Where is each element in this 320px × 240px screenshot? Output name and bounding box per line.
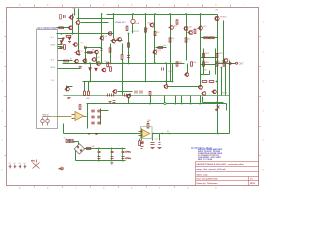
svg-text:C31: C31 <box>155 139 158 141</box>
wire v r15 <box>84 82 86 92</box>
capacitor C12 <box>98 122 100 124</box>
mounting hole H3 <box>19 165 22 169</box>
net label +V right <box>215 10 219 12</box>
wire protection bottom right <box>153 133 230 135</box>
current source circle <box>131 19 135 23</box>
wire output stage bottom <box>167 86 201 88</box>
transistor Q15 <box>169 26 174 30</box>
wire v sense6 <box>200 96 202 104</box>
resistor R24 <box>194 29 196 33</box>
transistor Q31 <box>126 94 131 98</box>
svg-text:GND: GND <box>59 169 64 171</box>
svg-text:2k2: 2k2 <box>188 39 191 41</box>
wire v ladder b <box>215 49 217 75</box>
wire R ladder row3 <box>201 64 217 66</box>
resistor R15 <box>84 91 86 95</box>
svg-text:Q15: Q15 <box>174 25 177 27</box>
wire V+ top rail <box>107 14 218 16</box>
ground G9 <box>158 147 162 149</box>
wire v uin <box>141 129 143 134</box>
transistor Q25 <box>74 59 79 63</box>
resistor R10 <box>64 45 66 50</box>
quartz / spare part symbol <box>31 160 40 169</box>
connector pins in X1 <box>41 117 58 126</box>
capacitor C17 (electrolytic) <box>98 157 101 159</box>
svg-text:TIP3055: TIP3055 <box>220 16 227 18</box>
transistor Q9 <box>117 38 122 42</box>
ground G10 <box>215 109 218 111</box>
label pin names <box>42 115 49 117</box>
resistor R18 <box>126 26 128 30</box>
resistor R23 <box>60 15 62 19</box>
protection section box <box>64 95 230 97</box>
wire v u2a <box>152 134 154 141</box>
svg-text:X2: X2 <box>64 138 66 140</box>
wire v sense3 <box>175 96 177 104</box>
capacitor C13 <box>141 142 144 144</box>
transistor Q13 <box>153 50 157 55</box>
resistor R3 <box>88 52 93 54</box>
diode D3 <box>95 68 97 71</box>
capacitor C10 <box>98 116 100 118</box>
wire v emitter <box>223 21 225 64</box>
wire sense bus <box>87 103 227 105</box>
title block header text (blue) <box>198 148 223 161</box>
svg-text:OUTPUT: OUTPUT <box>131 31 140 33</box>
svg-text:Q10: Q10 <box>96 57 99 59</box>
svg-text:SP1: SP1 <box>31 161 35 163</box>
svg-text:K1: K1 <box>167 131 169 133</box>
wire v ladder a <box>203 49 205 75</box>
transistor Q3 <box>68 26 73 30</box>
wire VAS rail <box>63 63 185 65</box>
svg-text:Q16: Q16 <box>188 26 191 28</box>
wire v q31 <box>128 98 130 104</box>
ground G1 <box>60 47 64 49</box>
capacitor C19 (electrolytic) <box>111 157 114 159</box>
wire v zobel b <box>225 64 227 96</box>
transistor Q30 <box>112 89 117 93</box>
wire v grid right <box>100 109 102 125</box>
svg-text:D1: D1 <box>63 38 65 40</box>
svg-text:0R22: 0R22 <box>218 62 222 64</box>
wire q30 link <box>118 91 133 93</box>
svg-text:R50: R50 <box>148 120 151 122</box>
wire v zobel c <box>229 61 231 111</box>
transistor Q10 <box>92 58 96 62</box>
resistor R34 <box>202 81 207 83</box>
resistor R14 <box>147 123 149 128</box>
resistor R7 <box>216 53 218 57</box>
capacitor C22 <box>63 15 65 18</box>
ground G7 <box>141 146 144 148</box>
net label OUT mid <box>131 31 140 33</box>
wire v out left <box>200 15 202 87</box>
wire v miller <box>128 34 130 64</box>
svg-text:1k5: 1k5 <box>172 38 175 40</box>
wire lower bias rail <box>83 81 173 83</box>
capacitor C4 <box>111 94 113 97</box>
ground G6 <box>110 162 113 164</box>
wire stub v2 <box>78 9 80 21</box>
capacitor C2 <box>101 48 103 50</box>
wire q24 top <box>67 86 73 88</box>
labels box1 pins <box>51 37 55 39</box>
ground G3 <box>68 97 71 99</box>
frame ticks bottom <box>35 186 175 188</box>
resistor R29 <box>154 31 156 35</box>
transistor Q14 <box>164 84 168 89</box>
frame ticks left <box>5 37 7 156</box>
svg-text:0R22: 0R22 <box>205 53 209 55</box>
wire v prot left <box>63 124 65 134</box>
transistor Q18 <box>198 85 202 89</box>
transistor Q7 <box>108 32 112 36</box>
svg-text:Q12: Q12 <box>148 23 151 25</box>
svg-text:0R22: 0R22 <box>205 62 209 64</box>
svg-text:Q1: Q1 <box>74 14 76 16</box>
resistor R36 <box>86 148 91 150</box>
transistor Q1 <box>69 15 74 19</box>
wire v out right <box>217 15 219 134</box>
wire upper left rail <box>77 18 114 20</box>
transistor Q5 <box>75 51 80 55</box>
net label +V left <box>72 8 76 10</box>
wire mid short <box>89 47 102 49</box>
wire v bias2 <box>186 15 188 61</box>
relay contact cross <box>217 106 220 109</box>
svg-text:BD139: BD139 <box>222 93 228 95</box>
transistor Q27 <box>82 59 87 63</box>
wire v current source <box>132 15 134 20</box>
frame ticks top <box>35 5 231 8</box>
transistor Q20 <box>215 16 220 20</box>
svg-text:Q13: Q13 <box>157 50 160 52</box>
frame column letters <box>19 4 21 7</box>
resistor R1 <box>59 27 64 29</box>
wire U1 input (yellow net) <box>58 116 72 118</box>
capacitor C7 <box>92 110 94 112</box>
resistor R22 <box>66 35 71 37</box>
transistor Q2 <box>76 21 80 25</box>
wire mid-left bus <box>57 33 114 35</box>
ground G12 <box>109 101 112 103</box>
resistor R21 <box>110 67 112 71</box>
title block <box>196 162 259 186</box>
op-amp U1 <box>72 112 87 121</box>
diode D5 <box>68 37 70 40</box>
resistor R30 <box>169 38 171 42</box>
resistor R31 <box>185 38 187 42</box>
transistor Q8 <box>111 39 116 44</box>
wire v grid left <box>87 104 89 129</box>
svg-text:1k: 1k <box>147 29 149 31</box>
input connector box X1 <box>37 30 58 129</box>
transistor Q29 <box>188 31 193 35</box>
capacitor C28 <box>139 91 141 94</box>
ground G4 <box>88 133 91 135</box>
node output terminal <box>236 62 238 64</box>
capacitor C29 <box>113 100 116 102</box>
capacitor C1 <box>62 38 64 41</box>
wire v fb2 <box>172 64 174 82</box>
capacitor C5 <box>124 94 126 97</box>
transistor Q6 <box>100 36 104 41</box>
wire v cascode <box>113 15 115 39</box>
wire v sense2 <box>164 96 166 103</box>
value label small texts <box>74 14 227 73</box>
wire v r12 <box>122 44 124 55</box>
wire v left drop <box>101 15 103 64</box>
resistor R9 <box>216 62 218 66</box>
ground G11 <box>68 41 71 43</box>
transistor Q16 <box>184 27 188 31</box>
wire v r16 <box>88 82 90 92</box>
mounting hole H2 <box>14 165 17 169</box>
LED D4 output indicator <box>230 62 233 65</box>
frame ticks right <box>259 37 261 156</box>
resistor R2 <box>64 60 69 62</box>
wire box1 stub d <box>58 60 73 62</box>
capacitor C23 <box>84 46 86 49</box>
capacitor C9 <box>92 116 94 118</box>
capacitor C20 (electrolytic) <box>122 148 125 162</box>
wire v u2b <box>159 134 161 141</box>
capacitor C3 <box>107 94 109 97</box>
resistor R25 <box>176 62 178 66</box>
wire v spk <box>226 104 228 111</box>
wire bias row <box>85 52 94 54</box>
wire box1 stub f <box>58 44 63 46</box>
title block rows text <box>197 163 257 185</box>
svg-text:Q8: Q8 <box>116 38 118 40</box>
resistor R19 <box>176 20 178 24</box>
transistor Q19 <box>198 26 203 31</box>
ground G8 <box>151 147 155 149</box>
capacitor C26 <box>127 55 130 57</box>
transistor Q24 <box>65 87 70 91</box>
value labels right <box>147 29 149 31</box>
svg-text:R40: R40 <box>92 146 95 148</box>
spare gate symbol <box>59 167 64 170</box>
wire v box edge <box>229 111 231 134</box>
wire psu v left <box>75 151 77 161</box>
transistor Q28 <box>101 68 106 72</box>
svg-text:4700u: 4700u <box>125 151 131 153</box>
capacitor C27 <box>134 91 136 94</box>
transistor Q21 <box>223 59 228 63</box>
wire v q27 <box>85 48 87 64</box>
resistor R8 <box>203 62 205 66</box>
wire relay box top <box>202 97 204 103</box>
capacitor C11 <box>92 122 94 124</box>
transistor Q26 <box>94 50 99 54</box>
wire box1 stub c <box>58 48 63 50</box>
wire v r20 <box>110 44 112 64</box>
svg-text:470: 470 <box>157 32 160 34</box>
wire upper mirror <box>81 22 109 24</box>
resistor R17 <box>149 91 151 95</box>
resistor R11 <box>107 62 109 67</box>
wire v mid rail <box>145 15 147 82</box>
transistor Q23 <box>212 90 217 94</box>
wire v sense1 <box>150 96 152 104</box>
svg-text:REV 1.2 / 2006: REV 1.2 / 2006 <box>198 159 213 161</box>
svg-text:T5: T5 <box>81 51 83 53</box>
wire v q17 <box>187 64 189 73</box>
op-amp U2 <box>139 127 153 139</box>
ground G2 <box>78 54 81 56</box>
wire v sense drop <box>122 64 124 96</box>
wire v fb3 <box>166 64 168 85</box>
transistor Q11 <box>96 62 101 66</box>
svg-text:OUT: OUT <box>239 62 245 65</box>
screw terminal X2 <box>66 139 74 142</box>
node sense tap (open pin) <box>164 103 166 105</box>
svg-text:Q18: Q18 <box>203 69 206 71</box>
wire v sense4 <box>181 96 183 104</box>
wire protection bottom left <box>64 133 142 135</box>
resistor R35 <box>209 81 214 83</box>
wire v q26 <box>96 54 98 64</box>
wire R ladder row1 <box>201 37 218 39</box>
resistor R32 <box>158 47 163 49</box>
svg-text:Q14: Q14 <box>168 71 171 73</box>
svg-text:R12: R12 <box>109 63 112 65</box>
fuse F1 <box>139 139 144 146</box>
wire q8 jog <box>114 40 123 42</box>
wire X2 to bridge <box>73 141 79 143</box>
resistor R27 <box>223 62 225 66</box>
resistor R12 <box>121 55 123 60</box>
wire R ladder row2 <box>201 57 217 59</box>
wire v zobel a <box>221 68 223 96</box>
wire q18 jog <box>201 74 210 76</box>
svg-text:B1: B1 <box>74 142 76 144</box>
svg-text:T4: T4 <box>81 43 83 45</box>
resistor R33 <box>128 43 130 47</box>
wire mid right short <box>156 47 167 49</box>
resistor R26 <box>191 62 193 66</box>
frame border <box>7 8 259 186</box>
wire v vas <box>154 15 156 64</box>
wire v feedback <box>90 64 92 82</box>
wire v u2c <box>141 134 143 141</box>
mounting hole H4 <box>24 165 27 169</box>
capacitor C25 <box>161 68 163 71</box>
svg-text:R9: R9 <box>92 50 94 52</box>
wire output node <box>218 63 237 65</box>
resistor R4 <box>204 37 209 39</box>
capacitor C24 <box>79 65 82 67</box>
wire stub v1 <box>74 9 76 16</box>
svg-text:F1: F1 <box>141 142 143 144</box>
transistor Q22 <box>202 92 206 96</box>
svg-text:Q19: Q19 <box>203 26 206 28</box>
capacitor C16 (electrolytic) <box>98 148 101 162</box>
wire box1 stub b <box>58 46 63 48</box>
svg-text:47p: 47p <box>163 45 166 47</box>
capacitor C6 <box>129 94 131 97</box>
wire v sense5 <box>190 96 192 104</box>
resistor R16 <box>88 91 90 95</box>
wire v q24 <box>66 86 68 92</box>
diode D2 <box>89 68 91 71</box>
svg-text:REV2: REV2 <box>250 183 256 185</box>
transistor Q12 <box>150 23 154 28</box>
wire psu top <box>85 148 126 150</box>
svg-text:4700u: 4700u <box>125 158 131 160</box>
resistor R6 <box>203 53 205 57</box>
wire box1 stub a <box>58 38 65 40</box>
resistor R13 <box>79 105 81 110</box>
wire box1 stub e <box>58 68 81 70</box>
wire v bias1 <box>170 15 172 82</box>
capacitor C18 (electrolytic) <box>111 148 114 162</box>
svg-text:0R22: 0R22 <box>218 53 222 55</box>
svg-text:C9: C9 <box>105 61 107 63</box>
wire input pair base <box>57 27 69 29</box>
wire psu bottom <box>76 160 126 162</box>
resistor R5 <box>210 37 215 39</box>
svg-text:WITH TIP3055 / TIP2955: WITH TIP3055 / TIP2955 <box>198 151 221 153</box>
wire grid out <box>101 110 109 112</box>
capacitor C15 <box>159 142 161 144</box>
resistor R20 <box>109 48 111 52</box>
capacitor C21 (electrolytic) <box>122 151 131 160</box>
capacitor C14 <box>151 142 155 144</box>
ground G5 <box>95 133 99 135</box>
diode D1 <box>60 41 62 44</box>
mounting hole H1 <box>9 165 12 169</box>
transistor Q17 <box>184 73 189 77</box>
net label bias (blue) <box>115 21 127 24</box>
bridge rectifier B1 <box>74 144 84 154</box>
wire y47 ext <box>85 47 89 49</box>
transistor Q4 <box>73 43 78 47</box>
wire v diff2 <box>78 25 80 53</box>
wire diff tail <box>72 14 74 34</box>
label protection (blue) <box>191 147 213 150</box>
label LINE INPUT (blue) <box>37 26 58 30</box>
resistor R28 <box>145 28 147 32</box>
capacitor C8 <box>98 110 100 112</box>
svg-text:R7: R7 <box>70 59 72 61</box>
svg-text:Q6: Q6 <box>105 36 107 38</box>
